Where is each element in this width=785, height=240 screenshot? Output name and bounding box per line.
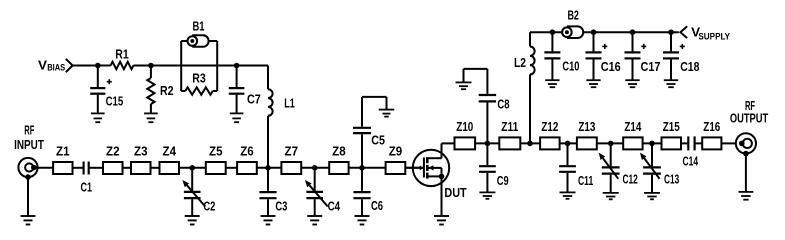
svg-text:C4: C4: [328, 200, 341, 214]
svg-text:Z1: Z1: [56, 144, 70, 158]
svg-text:C11: C11: [578, 174, 593, 188]
svg-text:C3: C3: [275, 200, 287, 214]
svg-text:L2: L2: [514, 56, 526, 70]
svg-text:Z7: Z7: [285, 144, 299, 158]
svg-text:B1: B1: [193, 19, 205, 33]
svg-text:C7: C7: [247, 93, 261, 107]
svg-text:Z6: Z6: [240, 144, 254, 158]
svg-text:C10: C10: [562, 60, 579, 74]
svg-text:R2: R2: [160, 84, 174, 98]
svg-text:Z16: Z16: [703, 120, 720, 134]
svg-text:C6: C6: [371, 199, 383, 213]
svg-text:B2: B2: [567, 9, 579, 23]
svg-text:R3: R3: [192, 71, 206, 85]
svg-text:C8: C8: [497, 98, 509, 112]
svg-text:L1: L1: [284, 97, 295, 111]
svg-text:C9: C9: [497, 174, 509, 188]
svg-text:Z3: Z3: [134, 144, 148, 158]
svg-text:R1: R1: [115, 48, 129, 62]
svg-text:C2: C2: [203, 200, 215, 214]
svg-text:SUPPLY: SUPPLY: [698, 32, 730, 42]
svg-text:C1: C1: [81, 180, 93, 194]
svg-text:C15: C15: [106, 94, 124, 108]
svg-text:RF: RF: [24, 124, 34, 138]
svg-text:OUTPUT: OUTPUT: [730, 111, 769, 125]
svg-text:BIAS: BIAS: [47, 62, 65, 72]
svg-text:C17: C17: [641, 60, 661, 74]
svg-text:C5: C5: [371, 133, 385, 147]
svg-text:Z13: Z13: [578, 120, 595, 134]
svg-text:Z12: Z12: [541, 120, 558, 134]
svg-text:Z5: Z5: [209, 144, 223, 158]
svg-text:C13: C13: [664, 173, 679, 187]
svg-text:Z15: Z15: [663, 120, 680, 134]
svg-text:C16: C16: [601, 60, 621, 74]
svg-text:DUT: DUT: [444, 186, 467, 200]
svg-text:Z9: Z9: [389, 144, 403, 158]
svg-text:Z10: Z10: [456, 120, 473, 134]
svg-text:C18: C18: [680, 60, 699, 74]
svg-text:INPUT: INPUT: [14, 138, 44, 152]
svg-text:Z8: Z8: [332, 144, 346, 158]
svg-text:C12: C12: [623, 173, 638, 187]
svg-text:Z11: Z11: [501, 120, 518, 134]
svg-text:Z14: Z14: [624, 120, 641, 134]
svg-text:Z4: Z4: [163, 144, 177, 158]
svg-text:Z2: Z2: [106, 144, 120, 158]
svg-text:C14: C14: [683, 154, 699, 168]
